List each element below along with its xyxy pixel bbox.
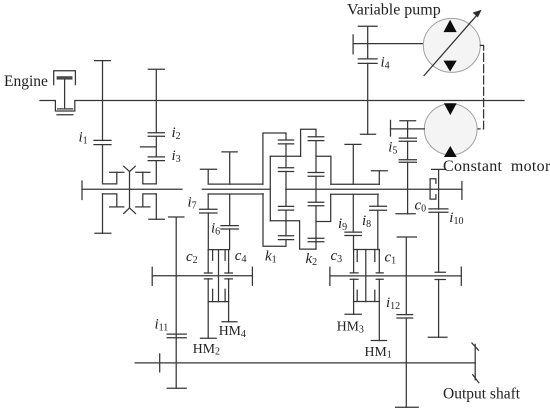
HM4 shaft	[222, 279, 237, 322]
svg-text:k2: k2	[306, 251, 318, 268]
planetary right lower shaft	[149, 194, 164, 219]
clutch c2 c4	[204, 250, 232, 302]
variable pump circle	[423, 10, 481, 76]
left sleeve box lower	[208, 193, 263, 195]
planetary lower-left gear	[103, 194, 124, 207]
planetary left lower shaft	[95, 194, 111, 233]
gear i9 shaft	[345, 194, 361, 249]
planetary bevel set: upper-left gear	[103, 145, 124, 184]
svg-text:HM2: HM2	[193, 341, 220, 358]
clutch c2 c4 engagement line	[152, 267, 252, 285]
gear i2 i3 shaft	[140, 69, 164, 160]
gear i1 shaft	[94, 61, 111, 145]
output shaft end symbol	[472, 343, 479, 383]
carrier output shaft with gear i11	[167, 217, 186, 388]
planetary lower-right gear	[136, 194, 157, 207]
third shaft upper line	[331, 183, 379, 185]
svg-text:c1: c1	[385, 249, 397, 266]
svg-text:c4: c4	[235, 248, 247, 265]
motor shaft	[391, 120, 425, 136]
clutch c3 c1	[350, 250, 383, 302]
svg-text:HM4: HM4	[219, 323, 246, 340]
k2 upper branch to third shaft	[316, 156, 331, 184]
hydrostatic dashed link	[477, 45, 483, 128]
svg-text:k1: k1	[265, 249, 277, 266]
right sleeve box lower	[331, 193, 379, 195]
svg-text:i8: i8	[362, 213, 371, 230]
svg-text:Variable pump: Variable pump	[347, 1, 441, 18]
clutch c0 shaft	[428, 169, 448, 337]
svg-text:i12: i12	[386, 295, 400, 312]
HM1 shaft	[371, 279, 386, 340]
planetary main shaft line	[82, 181, 182, 200]
svg-text:i9: i9	[338, 216, 347, 233]
second shaft line	[202, 182, 462, 200]
svg-text:Output shaft: Output shaft	[443, 386, 521, 403]
k1 carrier frame	[270, 156, 316, 249]
planetary k2 column	[301, 129, 324, 249]
planetary k1 column	[263, 133, 294, 246]
svg-text:i7: i7	[188, 195, 197, 212]
svg-text:i4: i4	[381, 55, 390, 72]
svg-text:i1: i1	[79, 130, 88, 147]
main input shaft	[40, 101, 524, 112]
planetary carrier Y-fork	[124, 166, 136, 213]
svg-text:i11: i11	[155, 317, 169, 334]
svg-text:Constant motor: Constant motor	[443, 158, 550, 175]
HM3 shaft	[345, 279, 361, 314]
svg-text:c2: c2	[186, 249, 198, 266]
svg-text:i10: i10	[449, 210, 463, 227]
pump input shaft	[353, 35, 423, 54]
clutch c3 c1 engagement line	[330, 267, 461, 285]
gear on third shaft right	[371, 171, 387, 185]
gear i8 shaft	[370, 194, 387, 249]
svg-text:HM1: HM1	[365, 344, 392, 361]
svg-text:HM3: HM3	[337, 319, 364, 336]
gear i12 shaft	[396, 237, 419, 407]
left sleeve box upper	[208, 183, 263, 185]
gear i5 shaft	[396, 121, 416, 214]
planetary bevel set: upper-right gear	[136, 161, 157, 184]
svg-text:i5: i5	[388, 140, 397, 157]
svg-text:c3: c3	[331, 248, 343, 265]
gear i4 shaft	[358, 26, 377, 134]
svg-text:c0: c0	[415, 197, 427, 214]
engine symbol	[54, 71, 76, 115]
svg-text:i6: i6	[211, 221, 220, 238]
gear i6 shaft	[221, 152, 238, 250]
svg-text:Engine: Engine	[4, 73, 48, 90]
HM2 shaft	[201, 279, 217, 338]
svg-text:i3: i3	[172, 148, 181, 165]
constant motor circle	[424, 103, 477, 157]
gear on third shaft left	[345, 144, 361, 184]
k2 lower branch	[316, 194, 331, 221]
gear i7 shaft	[200, 169, 217, 249]
svg-text:i2: i2	[172, 125, 181, 142]
output shaft line	[135, 354, 475, 372]
